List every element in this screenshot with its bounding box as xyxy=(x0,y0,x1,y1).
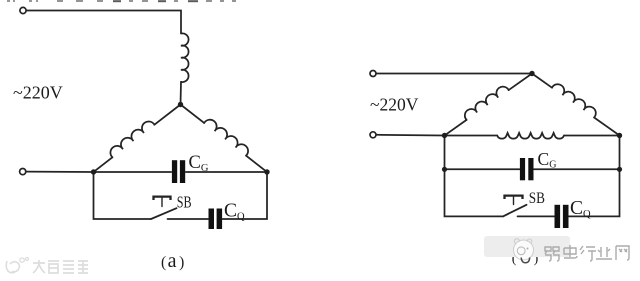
svg-text:~220V: ~220V xyxy=(13,83,63,103)
svg-text:CQ: CQ xyxy=(224,201,245,223)
svg-text:SB: SB xyxy=(177,193,192,212)
svg-text:CQ: CQ xyxy=(570,198,591,220)
svg-text:SB: SB xyxy=(529,190,545,207)
svg-text:CG: CG xyxy=(189,153,209,174)
svg-text:CG: CG xyxy=(538,149,557,171)
svg-text:~220V: ~220V xyxy=(370,95,419,115)
svg-text:(a): (a) xyxy=(161,250,184,272)
